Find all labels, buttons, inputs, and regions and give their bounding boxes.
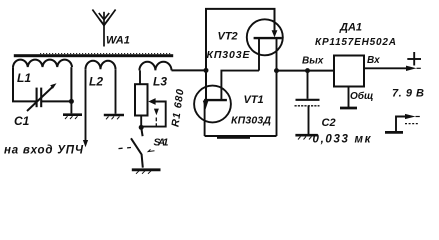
wire minus terminal xyxy=(396,117,405,132)
plus sign xyxy=(407,52,421,66)
ground (L1/C1 tank) xyxy=(63,101,82,119)
inductor L2 xyxy=(86,61,116,70)
svg-text:Вх: Вх xyxy=(367,55,380,66)
svg-text:WA1: WA1 xyxy=(106,35,130,47)
svg-text:L1: L1 xyxy=(17,71,31,85)
inductor L1 xyxy=(13,60,72,68)
wire L3 left lead xyxy=(139,70,141,84)
wire VT1 drain to VT2 source xyxy=(221,71,259,101)
wire L1 left side and tank bottom xyxy=(13,67,37,101)
node R1/SA1 junction xyxy=(139,125,144,130)
wire gate bus (left, top, right of box) xyxy=(206,9,275,101)
svg-text:КП303Е: КП303Е xyxy=(207,49,251,61)
wire R1 bottom lead xyxy=(140,116,142,128)
wire regulator output to plus terminal xyxy=(364,67,407,69)
ground (L2) xyxy=(104,115,124,119)
wire Obshch lead xyxy=(348,87,350,108)
node gate junction xyxy=(204,68,209,73)
wire bottom rail xyxy=(205,135,277,137)
node tank-ground junction xyxy=(69,99,74,104)
wire L2 right lead xyxy=(115,69,117,114)
svg-text:L3: L3 xyxy=(153,75,167,89)
node C2 junction xyxy=(305,68,310,73)
plus terminal arrow xyxy=(406,66,417,71)
SA1 label leader arrow xyxy=(148,149,154,151)
wire L3 to gates xyxy=(172,69,207,71)
wire wiper loop xyxy=(141,102,166,127)
wire VT2 drain down xyxy=(276,38,278,71)
svg-text:С2: С2 xyxy=(322,117,336,129)
ground (supply minus) xyxy=(385,131,403,134)
ferrite rod xyxy=(14,54,173,58)
svg-text:С1: С1 xyxy=(14,114,30,128)
svg-text:VT2: VT2 xyxy=(218,31,238,43)
regulator DA1 box xyxy=(334,56,364,87)
svg-text:на вход УПЧ: на вход УПЧ xyxy=(4,145,84,157)
wire VT1 source to bottom xyxy=(204,100,206,136)
svg-text:L2: L2 xyxy=(89,75,103,89)
svg-text:SA1: SA1 xyxy=(154,137,169,149)
output arrow to IF amplifier xyxy=(83,140,88,147)
svg-text:Общ: Общ xyxy=(350,90,373,102)
svg-text:Вых: Вых xyxy=(302,56,324,67)
bottom rail thick mark xyxy=(217,137,250,139)
transistor VT1 KP303D xyxy=(194,86,231,123)
capacitor C2 xyxy=(295,71,320,134)
wire L2 output lead xyxy=(85,69,87,140)
ground (SA1) xyxy=(132,170,161,174)
R1 wiper arrow xyxy=(148,98,155,105)
wire output rail to regulator xyxy=(277,70,335,72)
svg-text:7. 9 В: 7. 9 В xyxy=(392,88,424,100)
antenna WA1 xyxy=(92,10,115,47)
minus terminal dashed mark xyxy=(405,123,419,125)
svg-text:КП303Д: КП303Д xyxy=(231,115,271,127)
transistor VT2 KP303E xyxy=(247,19,283,55)
inductor L3 xyxy=(139,62,171,71)
wire tank bottom right xyxy=(41,67,71,101)
svg-text:КР1157ЕН502А: КР1157ЕН502А xyxy=(315,37,396,48)
ground (Obshch) xyxy=(340,107,357,110)
ground (C2) xyxy=(295,135,317,139)
resistor R1 xyxy=(135,84,148,115)
svg-text:ДА1: ДА1 xyxy=(339,22,362,34)
capacitor C1 (variable) xyxy=(27,87,53,112)
mechanical link dashes xyxy=(119,118,157,149)
wire VT2 source lead xyxy=(258,38,260,71)
minus terminal arrow xyxy=(405,114,416,119)
switch SA1 xyxy=(131,127,143,167)
wire right edge down to bottom rail xyxy=(276,71,278,136)
node drain/rail junction xyxy=(274,68,279,73)
mechanical link arrow (R1 to SA1) xyxy=(154,109,159,116)
svg-text:VT1: VT1 xyxy=(244,94,264,106)
svg-text:0,033 мк: 0,033 мк xyxy=(313,134,372,146)
